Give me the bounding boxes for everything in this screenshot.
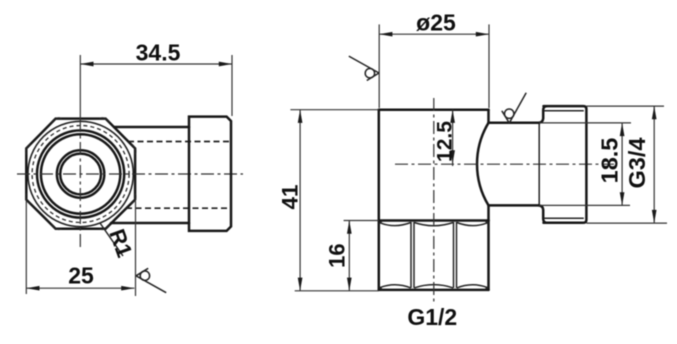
svg-text:41: 41: [278, 184, 303, 209]
svg-text:25: 25: [68, 263, 94, 289]
svg-text:G3/4: G3/4: [624, 138, 650, 189]
svg-text:16: 16: [325, 243, 350, 267]
svg-text:34.5: 34.5: [136, 40, 181, 66]
svg-text:G1/2: G1/2: [407, 304, 457, 330]
svg-text:ø25: ø25: [416, 10, 456, 36]
svg-text:18.5: 18.5: [596, 138, 622, 184]
svg-text:12.5: 12.5: [434, 121, 457, 162]
svg-text:R1: R1: [104, 226, 137, 261]
